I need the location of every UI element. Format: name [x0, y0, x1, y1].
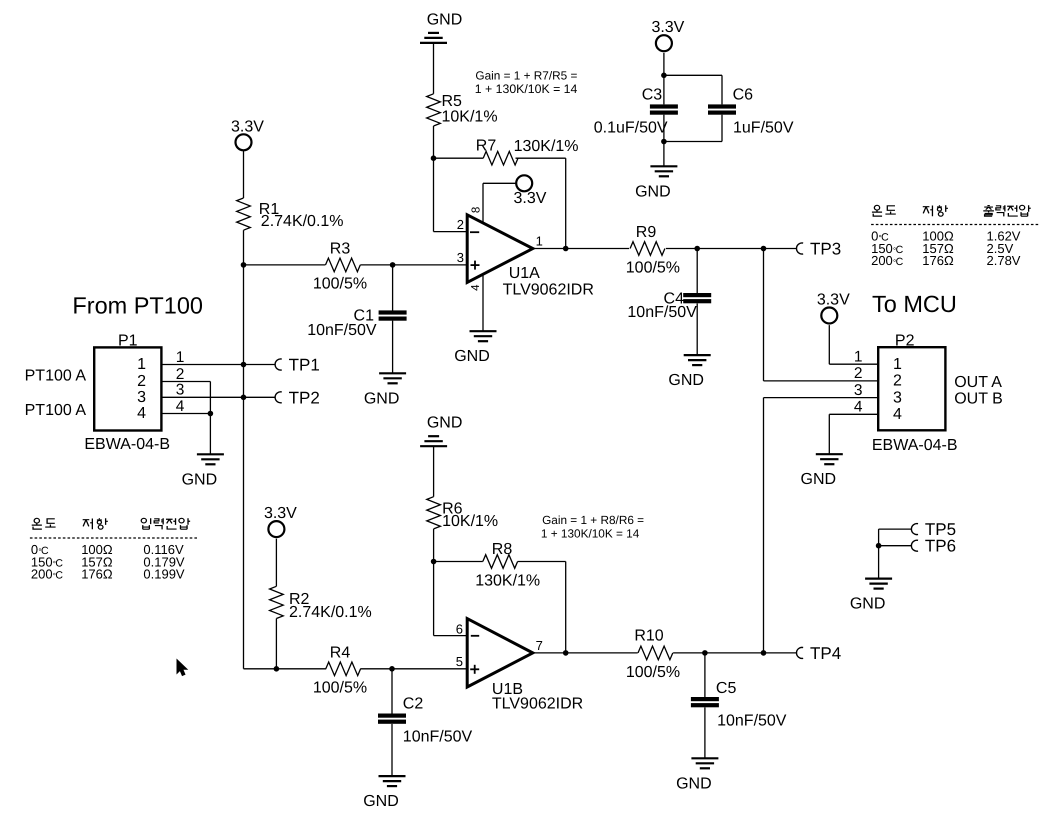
pin 1 label U1A [536, 234, 543, 249]
capacitor C3 [650, 104, 678, 114]
node E junction C3/C6 [661, 73, 667, 79]
label OUT B [954, 391, 1003, 408]
label P2 [895, 333, 915, 350]
wire R8 to output net [518, 562, 566, 653]
node U1A output junction [563, 246, 569, 252]
capacitor C6 [708, 104, 736, 114]
svg-text:6: 6 [456, 622, 463, 637]
svg-text:7: 7 [536, 638, 543, 653]
pin 1 number P1 [176, 349, 185, 366]
wire C6 to node F [664, 115, 722, 142]
connector P1 box [94, 347, 161, 430]
svg-text:R9: R9 [636, 224, 657, 241]
label R7 [476, 138, 497, 155]
wire R5 to node FB1 [433, 126, 435, 158]
wire C4 to ground [696, 303, 698, 355]
svg-text:TP6: TP6 [925, 537, 956, 556]
svg-text:OUT B: OUT B [954, 391, 1003, 408]
pin 1 number P2 [854, 349, 863, 366]
wire to R10 [566, 652, 638, 654]
svg-text:TP4: TP4 [810, 644, 841, 663]
wire FB2 to R8 [434, 561, 483, 563]
svg-text:C5: C5 [716, 680, 737, 697]
svg-text:C2: C2 [403, 696, 424, 713]
test point TP3 [797, 240, 842, 259]
svg-text:From PT100: From PT100 [72, 293, 203, 319]
svg-text:4: 4 [137, 405, 146, 422]
pin 6 label U1B [456, 622, 463, 637]
svg-text:C6: C6 [733, 87, 754, 104]
label C5 [716, 680, 737, 697]
wire C5 to ground [704, 707, 706, 758]
svg-text:U1A: U1A [509, 265, 540, 282]
label R5 value 10K/1% [442, 109, 498, 126]
pin 3 number P2 [854, 382, 863, 399]
svg-text:2.74K/0.1%: 2.74K/0.1% [261, 213, 344, 230]
power 3.3V R1 [231, 118, 264, 150]
title To MCU [872, 291, 957, 317]
wire node I to node J [705, 652, 764, 654]
svg-text:R3: R3 [330, 241, 351, 258]
wire C3 to node F [663, 115, 665, 142]
wire node F to ground [663, 142, 665, 167]
test point TP4 [797, 644, 842, 663]
pin 7 label U1B [536, 638, 543, 653]
label PT100 A upper [25, 368, 87, 385]
svg-text:8: 8 [470, 207, 482, 213]
wire R3 to node B [360, 264, 392, 266]
wire GND to R5 [433, 43, 435, 94]
node TP6 junction [876, 543, 882, 549]
label R1 value 2.74K/0.1% [261, 213, 344, 230]
ground GND U1A pin4 [454, 331, 496, 365]
svg-text:1: 1 [536, 234, 543, 249]
svg-text:200°C: 200°C [31, 567, 64, 582]
note gain U1A [475, 69, 578, 97]
node I junction C5 [702, 650, 708, 656]
resistor R9 [630, 242, 665, 256]
test point TP6 [911, 537, 956, 556]
resistor R2 [270, 586, 284, 618]
ground GND P1 [182, 454, 224, 488]
wire U1B output [532, 652, 566, 654]
svg-text:3.3V: 3.3V [651, 19, 684, 36]
wire node B to U1A pin3 [393, 264, 467, 266]
svg-text:GND: GND [668, 372, 704, 389]
resistor R5 [427, 94, 441, 126]
wire TP5 [879, 528, 912, 530]
svg-text:100/5%: 100/5% [626, 664, 680, 681]
label R10 [634, 628, 663, 645]
label R1 [259, 201, 280, 218]
wire U1A output [532, 248, 566, 250]
ground GND (top, above R5) [420, 11, 462, 43]
op-amp U1A plus [471, 261, 480, 270]
svg-text:10nF/50V: 10nF/50V [307, 322, 377, 339]
svg-text:3.3V: 3.3V [817, 292, 850, 309]
op-amp U1B plus [470, 665, 479, 674]
svg-text:176Ω: 176Ω [81, 567, 113, 582]
connector P2 box [878, 347, 945, 430]
wire R2 to node C [275, 619, 277, 669]
wire node I to C5 [704, 653, 706, 697]
label R7 value 130K/1% [514, 138, 579, 155]
op-amp U1A triangle [467, 215, 533, 283]
svg-text:4: 4 [470, 284, 482, 291]
label C1 [354, 308, 375, 325]
pin 2 number P2 [854, 365, 863, 382]
ground GND C4 [668, 355, 710, 389]
node J junction OUTB [761, 650, 767, 656]
ground GND C2 [363, 776, 405, 810]
pin 1 number inside P2 [893, 356, 902, 373]
node F junction [661, 139, 667, 145]
svg-text:R7: R7 [476, 138, 497, 155]
wire node E to C6 [664, 75, 722, 104]
wire R9 to node G [666, 248, 697, 250]
svg-text:R10: R10 [634, 628, 663, 645]
svg-text:0.199V: 0.199V [143, 567, 185, 582]
label R8 [492, 541, 513, 558]
svg-text:10K/1%: 10K/1% [442, 513, 498, 530]
svg-text:1: 1 [137, 356, 146, 373]
label U1A [509, 265, 540, 282]
svg-text:GND: GND [363, 793, 399, 810]
label R6 value 10K/1% [442, 513, 498, 530]
svg-text:1 + 130K/10K = 14: 1 + 130K/10K = 14 [475, 82, 578, 96]
label R10 value 100/5% [626, 664, 680, 681]
ground GND C3/C6 [635, 166, 677, 200]
svg-text:GND: GND [635, 183, 671, 200]
power 3.3V C3 [651, 19, 684, 51]
svg-text:0.1uF/50V: 0.1uF/50V [594, 120, 668, 137]
svg-text:176Ω: 176Ω [922, 253, 954, 268]
test point TP2 [275, 388, 320, 407]
svg-text:2: 2 [893, 373, 902, 390]
pin 3 number P1 [176, 382, 185, 399]
ground GND C1 [364, 373, 406, 407]
wire FB2 to U1B pin6 [434, 562, 467, 636]
node U1B output junction [563, 650, 569, 656]
test point TP1 [275, 356, 320, 375]
resistor R10 [638, 646, 673, 660]
wire FB1 to U1A pin2 [434, 158, 467, 231]
svg-text:3: 3 [457, 250, 464, 265]
node TP1 junction [241, 362, 247, 368]
svg-text:GND: GND [427, 11, 463, 28]
wire node H to TP3 [764, 248, 797, 250]
svg-text:1: 1 [893, 356, 902, 373]
node G junction C4 [694, 246, 700, 252]
label C6 value 1uF/50V [733, 120, 794, 137]
svg-text:130K/1%: 130K/1% [514, 138, 579, 155]
wire node A to R3 [244, 264, 326, 266]
svg-text:TP3: TP3 [810, 240, 841, 259]
power 3.3V U1A pin8 [483, 175, 547, 207]
resistor R1 [237, 198, 251, 230]
op-amp U1B triangle [467, 619, 533, 687]
svg-text:3.3V: 3.3V [264, 505, 297, 522]
label R6 [442, 501, 463, 518]
pin 4 label U1A [470, 284, 482, 291]
svg-text:1 + 130K/10K = 14: 1 + 130K/10K = 14 [541, 526, 640, 540]
label C4 value 10nF/50V [627, 304, 697, 321]
wire node G to node H [697, 248, 763, 250]
note gain U1B [541, 513, 644, 541]
label C2 [403, 696, 424, 713]
svg-text:TP1: TP1 [289, 356, 320, 375]
pin 3 number inside P1 [137, 389, 146, 406]
node D junction C2 [389, 666, 395, 672]
power 3.3V R2 [264, 505, 297, 537]
svg-text:P1: P1 [118, 333, 138, 350]
node FB1 junction [431, 155, 437, 161]
svg-text:1: 1 [176, 349, 185, 366]
pin 4 number inside P2 [893, 406, 902, 423]
label C5 value 10nF/50V [717, 713, 787, 730]
node FB2 junction [431, 559, 437, 565]
resistor R7 [483, 151, 518, 165]
ground GND C5 [676, 758, 718, 792]
label R9 [636, 224, 657, 241]
wire P1 pin1 to TP1 [161, 364, 275, 366]
pin 4 number P1 [176, 398, 185, 415]
svg-text:OUT A: OUT A [954, 374, 1002, 391]
svg-text:R8: R8 [492, 541, 513, 558]
label P1 [118, 333, 138, 350]
capacitor C1 [379, 310, 407, 320]
svg-text:3.3V: 3.3V [514, 190, 547, 207]
wire node G to C4 [696, 249, 698, 294]
pin 4 number inside P1 [137, 405, 146, 422]
pin 2 number inside P1 [137, 373, 146, 390]
pin 5 label U1B [456, 654, 463, 669]
svg-text:EBWA-04-B: EBWA-04-B [872, 437, 958, 454]
op-amp U1A minus [470, 231, 479, 233]
wire to R9 [566, 248, 629, 250]
label U1B [492, 681, 523, 698]
svg-text:To MCU: To MCU [872, 291, 957, 317]
svg-text:2.78V: 2.78V [987, 253, 1021, 268]
wire node D to C2 [391, 669, 393, 714]
svg-text:10nF/50V: 10nF/50V [403, 729, 473, 746]
wire sense net down [243, 265, 245, 669]
label EBWA-04-B P2 [872, 437, 958, 454]
svg-text:4: 4 [893, 406, 902, 423]
wire node B to C1 [392, 265, 394, 311]
node H junction OUTA [761, 246, 767, 252]
capacitor C4 [683, 293, 711, 303]
wire P1 pin3 to TP2 [161, 396, 275, 398]
svg-text:GND: GND [850, 596, 886, 613]
svg-text:2.74K/0.1%: 2.74K/0.1% [289, 604, 372, 621]
svg-text:4: 4 [854, 399, 863, 416]
svg-text:C3: C3 [642, 87, 663, 104]
ground GND TP5/TP6 [850, 579, 892, 613]
capacitor C5 [691, 697, 719, 707]
svg-text:R5: R5 [442, 93, 463, 110]
svg-text:10K/1%: 10K/1% [442, 109, 498, 126]
svg-text:10nF/50V: 10nF/50V [717, 713, 787, 730]
label C1 value 10nF/50V [307, 322, 377, 339]
svg-text:3: 3 [137, 389, 146, 406]
svg-text:3.3V: 3.3V [231, 118, 264, 135]
svg-text:GND: GND [801, 471, 837, 488]
wire OUT A to P2 pin2 [764, 249, 879, 381]
ground GND P2 [801, 454, 843, 488]
svg-text:100/5%: 100/5% [313, 275, 367, 292]
label C3 [642, 87, 663, 104]
wire P1 pin4 to ground [209, 414, 211, 455]
node B junction C1 [390, 262, 396, 268]
wire 3.3V to R1 [243, 151, 245, 198]
label EBWA-04-B P1 [84, 436, 170, 453]
wire R7 to output net [516, 158, 566, 248]
pin 2 label U1A [457, 217, 464, 232]
pin 1 number inside P1 [137, 356, 146, 373]
wire node D to U1B pin5 [392, 668, 466, 670]
svg-text:4: 4 [176, 398, 185, 415]
svg-text:130K/1%: 130K/1% [475, 573, 540, 590]
pin 8 label U1A [470, 207, 482, 213]
svg-text:EBWA-04-B: EBWA-04-B [84, 436, 170, 453]
svg-text:200°C: 200°C [871, 253, 904, 268]
title From PT100 [72, 293, 203, 319]
label R3 value 100/5% [313, 275, 367, 292]
wire R4 to node D [360, 668, 392, 670]
label R8 value 130K/1% [475, 573, 540, 590]
svg-text:GND: GND [454, 348, 490, 365]
table output voltage (Korean headers) [871, 205, 1040, 268]
pin 4 number P2 [854, 399, 863, 416]
svg-text:R4: R4 [330, 645, 351, 662]
node TP2 junction [241, 395, 247, 401]
svg-text:Gain = 1 + R8/R6 =: Gain = 1 + R8/R6 = [542, 513, 644, 527]
svg-text:TLV9062IDR: TLV9062IDR [503, 282, 594, 299]
pin 2 number P1 [176, 366, 185, 383]
op-amp U1B minus [471, 635, 479, 637]
label R5 [442, 93, 463, 110]
svg-text:5: 5 [456, 654, 463, 669]
resistor R4 [326, 662, 361, 676]
svg-text:P2: P2 [895, 333, 915, 350]
wire P1 pin2 [161, 382, 210, 414]
node P1 pin4 junction [208, 411, 214, 417]
svg-text:GND: GND [676, 775, 712, 792]
label C6 [733, 87, 754, 104]
svg-text:GND: GND [364, 390, 400, 407]
pin 3 number inside P2 [893, 389, 902, 406]
svg-text:GND: GND [427, 415, 463, 432]
label R3 [330, 241, 351, 258]
wire node J to TP4 [764, 652, 797, 654]
svg-text:100/5%: 100/5% [626, 259, 680, 276]
label C2 value 10nF/50V [403, 729, 473, 746]
svg-text:1: 1 [854, 349, 863, 366]
wire 3.3V to R2 [275, 539, 277, 587]
wire OUT B to P2 pin3 [764, 398, 879, 653]
svg-text:Gain = 1 + R7/R5 =: Gain = 1 + R7/R5 = [475, 69, 577, 83]
wire TP6 [879, 545, 912, 547]
svg-text:PT100 A: PT100 A [25, 368, 87, 385]
svg-text:2: 2 [137, 373, 146, 390]
label R9 value 100/5% [626, 259, 680, 276]
label U1B value TLV9062IDR [492, 696, 583, 713]
wire 3.3V to P2 pin1 [829, 325, 878, 364]
svg-text:TP2: TP2 [289, 388, 320, 407]
wire bottom rail [244, 668, 327, 670]
wire R6 to node FB2 [433, 529, 435, 562]
svg-text:10nF/50V: 10nF/50V [627, 304, 697, 321]
pin 3 label U1A [457, 250, 464, 265]
resistor R3 [326, 258, 361, 272]
svg-text:2: 2 [176, 366, 185, 383]
table input voltage (Korean headers) [30, 518, 199, 582]
label PT100 A lower [25, 402, 87, 419]
wire FB1 to R7 [434, 157, 484, 159]
svg-text:TLV9062IDR: TLV9062IDR [492, 696, 583, 713]
node C junction R2 [274, 666, 280, 672]
svg-text:100/5%: 100/5% [313, 680, 367, 697]
svg-text:GND: GND [182, 471, 218, 488]
power 3.3V P2 [817, 292, 850, 324]
wire 3.3V to node E [663, 53, 665, 76]
resistor R8 [483, 555, 518, 569]
node A junction R1/R3 [241, 262, 247, 268]
svg-text:1uF/50V: 1uF/50V [733, 120, 794, 137]
svg-text:2: 2 [457, 217, 464, 232]
label U1A value TLV9062IDR [503, 282, 594, 299]
wire U1A pin4 [482, 275, 484, 331]
svg-text:3: 3 [854, 382, 863, 399]
label C4 [664, 291, 685, 308]
resistor R6 [427, 497, 441, 529]
test point TP5 [911, 520, 956, 539]
pin 2 number inside P2 [893, 373, 902, 390]
mouse cursor [177, 660, 187, 676]
svg-text:3: 3 [893, 389, 902, 406]
wire C1 to ground [392, 321, 394, 374]
wire P2 pin4 to ground [829, 414, 878, 454]
wire R10 to node I [673, 652, 705, 654]
label R2 value 2.74K/0.1% [289, 604, 372, 621]
wire node E to C3 [663, 75, 665, 104]
wire R1 to node A [243, 230, 245, 265]
wire C2 to ground [391, 724, 393, 776]
wire U1A pin8 [482, 183, 484, 222]
label R4 value 100/5% [313, 680, 367, 697]
wire P1 pin4 [161, 413, 210, 415]
label R4 [330, 645, 351, 662]
svg-text:3: 3 [176, 382, 185, 399]
label OUT A [954, 374, 1002, 391]
wire GND to R6 [433, 446, 435, 497]
capacitor C2 [378, 714, 406, 724]
label R2 [289, 591, 310, 608]
ground GND (above R6) [420, 415, 462, 447]
svg-text:2: 2 [854, 365, 863, 382]
label C3 value 0.1uF/50V [594, 120, 668, 137]
svg-text:PT100 A: PT100 A [25, 402, 87, 419]
wire TP5/TP6 to ground [878, 529, 880, 579]
